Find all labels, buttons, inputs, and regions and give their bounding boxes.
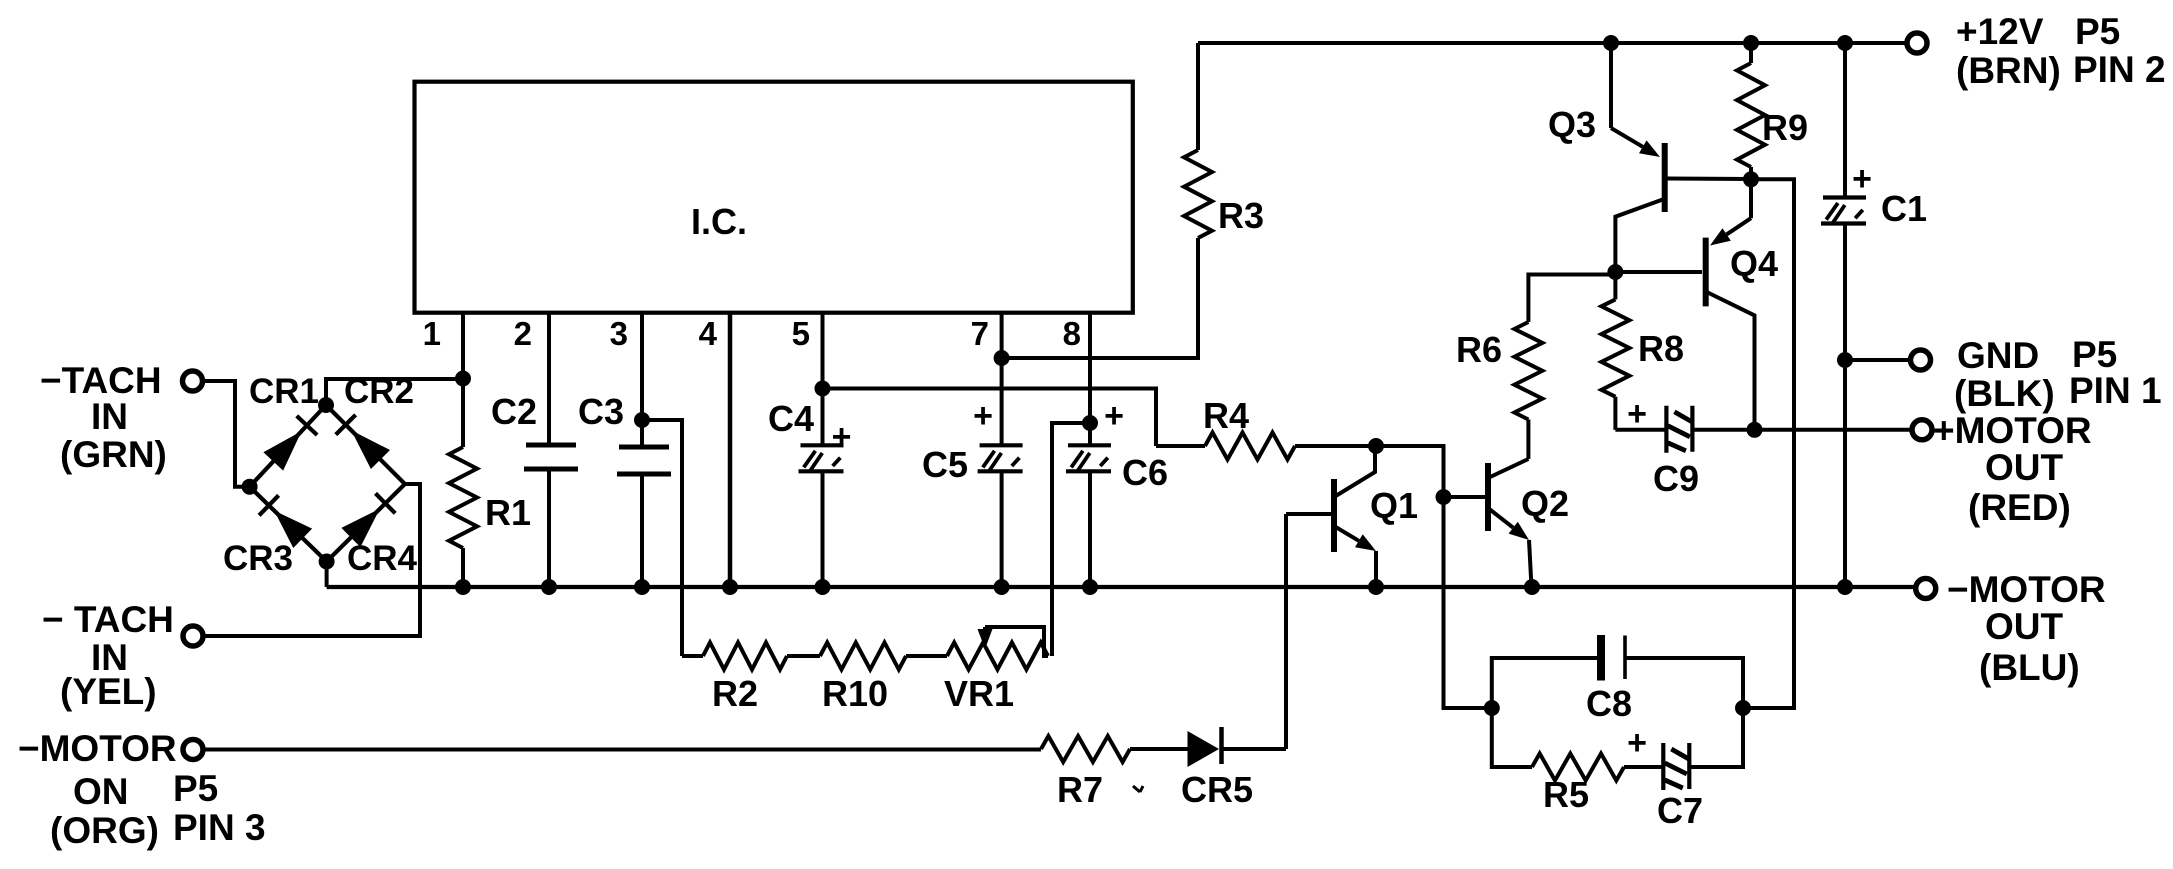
- svg-text:C3: C3: [578, 391, 624, 432]
- svg-text:R10: R10: [822, 673, 888, 714]
- node pin3 junction: [634, 412, 650, 428]
- svg-text:5: 5: [792, 315, 810, 352]
- transistor Q1: [1331, 479, 1337, 552]
- wire pin8: [1088, 312, 1092, 423]
- svg-text:C6: C6: [1122, 452, 1168, 493]
- svg-text:(BRN): (BRN): [1956, 50, 2061, 91]
- terminal GND: [1911, 350, 1931, 370]
- svg-text:(YEL): (YEL): [60, 671, 157, 712]
- node Q1 collector: [1368, 438, 1384, 454]
- diode CR5: [1188, 731, 1220, 767]
- diode CR2: [326, 405, 405, 484]
- capacitor C2: [547, 312, 551, 445]
- wire bridge top to pin1: [326, 379, 463, 405]
- svg-text:PIN 2: PIN 2: [2073, 49, 2166, 90]
- svg-text:IN: IN: [91, 396, 128, 437]
- svg-text:P5: P5: [173, 768, 218, 809]
- node bus R1: [455, 579, 471, 595]
- wire pin1: [461, 312, 465, 379]
- svg-text:2: 2: [514, 315, 532, 352]
- node snubber left: [1484, 700, 1500, 716]
- node bus C1 leg: [1837, 579, 1853, 595]
- wire R9 node to snubber right: [1743, 179, 1794, 708]
- transistor Q3: [1662, 143, 1668, 212]
- svg-text:(RED): (RED): [1968, 487, 2071, 528]
- svg-text:(GRN): (GRN): [60, 434, 167, 475]
- svg-text:+: +: [973, 397, 993, 435]
- capacitor C6: [1088, 423, 1092, 445]
- svg-text:R9: R9: [1762, 107, 1808, 148]
- svg-text:7: 7: [971, 315, 989, 352]
- terminal -TACH IN (GRN): [183, 371, 203, 391]
- resistor R3: [1196, 43, 1200, 150]
- node bus C6: [1082, 579, 1098, 595]
- terminal -MOTOR ON (ORG): [183, 740, 203, 760]
- node R9 top tap: [1743, 35, 1759, 51]
- svg-text:CR4: CR4: [347, 539, 418, 578]
- svg-text:R6: R6: [1456, 329, 1502, 370]
- node Q3 emitter tap: [1603, 35, 1619, 51]
- wire pin3: [640, 312, 644, 420]
- svg-text:−TACH: −TACH: [40, 360, 162, 401]
- svg-text:C8: C8: [1586, 683, 1632, 724]
- node R9 bottom: [1743, 171, 1759, 187]
- svg-text:OUT: OUT: [1985, 606, 2064, 647]
- svg-text:(BLK): (BLK): [1954, 373, 2055, 414]
- svg-text:VR1: VR1: [944, 673, 1014, 714]
- svg-text:PIN 3: PIN 3: [173, 807, 266, 848]
- node Q4 collector +MOTOR: [1747, 422, 1763, 438]
- resistor R4: [1156, 444, 1205, 448]
- node bus C2: [541, 579, 557, 595]
- svg-text:4: 4: [699, 315, 718, 352]
- node bus Q1 emitter: [1368, 579, 1384, 595]
- stray ink mark: [1133, 786, 1140, 792]
- svg-text:C5: C5: [922, 444, 968, 485]
- node bus C3: [634, 579, 650, 595]
- capacitor C9: [1615, 428, 1666, 432]
- diode CR4: [327, 484, 405, 562]
- transistor Q4: [1703, 238, 1709, 307]
- svg-text:−MOTOR: −MOTOR: [1947, 569, 2106, 610]
- svg-text:R2: R2: [712, 673, 758, 714]
- capacitor C1: [1843, 43, 1847, 198]
- svg-text:R8: R8: [1638, 328, 1684, 369]
- svg-text:P5: P5: [2075, 11, 2120, 52]
- wire -MOTOR ON to R7: [205, 748, 1042, 752]
- node bridge left vertex: [242, 479, 258, 495]
- IC U1 box: [415, 82, 1133, 313]
- svg-text:GND: GND: [1957, 335, 2039, 376]
- svg-text:Q4: Q4: [1730, 243, 1778, 284]
- svg-text:− TACH: − TACH: [42, 599, 174, 640]
- svg-text:3: 3: [610, 315, 628, 352]
- terminal +MOTOR OUT: [1912, 420, 1932, 440]
- diode CR1: [250, 405, 326, 487]
- node bus C5: [994, 579, 1010, 595]
- svg-text:CR3: CR3: [223, 539, 293, 578]
- svg-text:+12V: +12V: [1956, 11, 2044, 52]
- node Q3 collector / R8 top: [1607, 264, 1623, 280]
- node bus C4: [815, 579, 831, 595]
- wire pin7: [1000, 312, 1004, 358]
- wire bridge bottom to ground bus: [325, 562, 329, 588]
- svg-text:C7: C7: [1657, 790, 1703, 831]
- wire CR5 to Q1 base: [1284, 514, 1288, 749]
- node bridge top vertex: [318, 397, 334, 413]
- svg-text:P5: P5: [2072, 334, 2117, 375]
- svg-text:+: +: [1104, 397, 1124, 435]
- node GND tap: [1837, 352, 1853, 368]
- wire bridge right to YEL terminal: [205, 484, 421, 636]
- resistor R5: [1492, 708, 1532, 767]
- resistor R10: [820, 643, 906, 670]
- terminal -TACH IN (YEL): [183, 626, 203, 646]
- node bus Q2 emitter: [1524, 579, 1540, 595]
- svg-text:−MOTOR: −MOTOR: [18, 728, 177, 769]
- resistor R7: [1041, 736, 1130, 762]
- wire pin7 to R3: [1002, 238, 1198, 358]
- svg-text:+: +: [1627, 724, 1647, 762]
- node pin5 junction: [815, 381, 831, 397]
- svg-text:R3: R3: [1218, 195, 1264, 236]
- svg-text:OUT: OUT: [1985, 447, 2064, 488]
- wire pin5 to R4: [823, 389, 1157, 447]
- node snubber right: [1735, 700, 1751, 716]
- svg-text:Q2: Q2: [1521, 483, 1569, 524]
- svg-text:CR5: CR5: [1181, 769, 1253, 810]
- svg-text:C2: C2: [491, 391, 537, 432]
- wire GND: [1845, 358, 1910, 362]
- svg-text:CR2: CR2: [344, 372, 414, 411]
- wire GRN terminal to bridge left: [204, 381, 250, 487]
- svg-text:C9: C9: [1653, 458, 1699, 499]
- svg-text:ON: ON: [73, 771, 129, 812]
- svg-text:R4: R4: [1203, 395, 1249, 436]
- node C1 top tap: [1837, 35, 1853, 51]
- svg-text:+: +: [1852, 160, 1872, 198]
- svg-text:+: +: [1627, 395, 1647, 433]
- wire +MOTOR OUT: [1755, 428, 1912, 432]
- VR1 wiper: [985, 627, 1048, 656]
- svg-text:Q1: Q1: [1370, 485, 1418, 526]
- capacitor C7: [1661, 743, 1665, 790]
- svg-text:PIN 1: PIN 1: [2069, 370, 2162, 411]
- svg-text:I.C.: I.C.: [691, 201, 747, 242]
- capacitor C3: [640, 420, 644, 447]
- terminal -MOTOR OUT: [1916, 579, 1936, 599]
- diode CR3: [250, 487, 327, 562]
- capacitor C4: [821, 389, 825, 446]
- resistor R2: [682, 654, 703, 658]
- resistor R6: [1526, 420, 1530, 460]
- node bridge bottom vertex: [319, 554, 335, 570]
- node pin8 junction: [1082, 415, 1098, 431]
- node pin7 junction: [994, 350, 1010, 366]
- node bus pin4: [722, 579, 738, 595]
- resistor R1: [461, 379, 465, 448]
- wire +12V rail: [1198, 41, 1905, 45]
- node Q2 base tap: [1436, 489, 1452, 505]
- resistor R9: [1749, 43, 1753, 63]
- wire pin4 to ground bus: [728, 312, 733, 587]
- svg-text:8: 8: [1063, 315, 1081, 352]
- wire Q1 collector to Q2 base and C8: [1376, 446, 1492, 708]
- resistor R8: [1613, 272, 1617, 299]
- wire C6 node to VR1 wiper: [1052, 423, 1090, 656]
- svg-text:(ORG): (ORG): [50, 810, 159, 851]
- svg-text:C4: C4: [768, 398, 814, 439]
- svg-text:CR1: CR1: [249, 372, 319, 411]
- potentiometer VR1: [947, 643, 1048, 670]
- svg-text:R7: R7: [1057, 769, 1103, 810]
- wire C3 node to R2: [642, 420, 682, 656]
- svg-text:C1: C1: [1881, 188, 1927, 229]
- svg-text:Q3: Q3: [1548, 104, 1596, 145]
- node pin1 junction: [455, 371, 471, 387]
- transistor Q2: [1485, 463, 1491, 531]
- svg-text:+: +: [832, 418, 852, 456]
- svg-text:R5: R5: [1543, 774, 1589, 815]
- svg-text:+MOTOR: +MOTOR: [1933, 410, 2092, 451]
- svg-text:1: 1: [423, 315, 441, 352]
- wire ground bus -MOTOR OUT net: [327, 585, 1915, 589]
- capacitor C5: [1000, 358, 1004, 445]
- capacitor C8: [1492, 658, 1598, 708]
- svg-text:(BLU): (BLU): [1979, 647, 2080, 688]
- terminal +12V: [1907, 33, 1927, 53]
- wire pin5: [821, 312, 825, 389]
- svg-text:R1: R1: [485, 492, 531, 533]
